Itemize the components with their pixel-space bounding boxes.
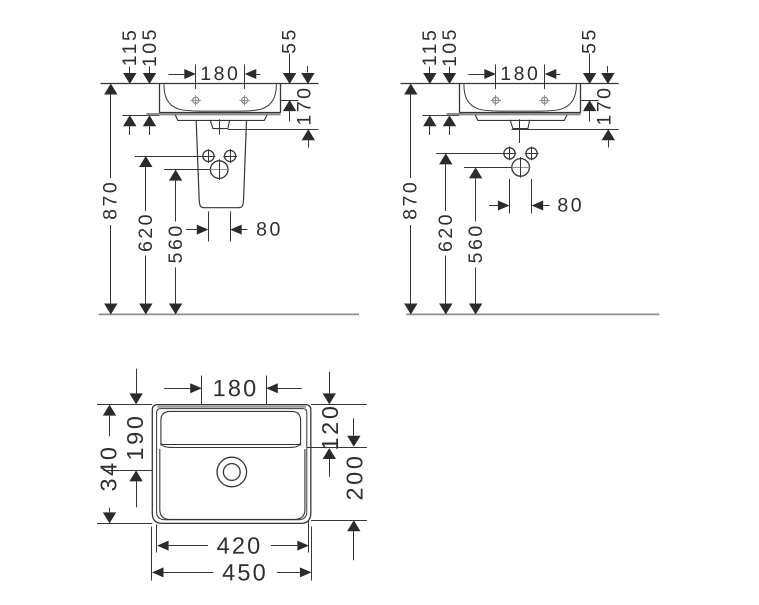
svg-text:620: 620 xyxy=(435,212,457,252)
svg-text:105: 105 xyxy=(439,27,461,67)
svg-text:190: 190 xyxy=(122,413,148,460)
svg-text:560: 560 xyxy=(165,223,187,263)
svg-text:620: 620 xyxy=(135,212,157,252)
svg-text:870: 870 xyxy=(400,180,422,220)
svg-text:55: 55 xyxy=(579,27,601,54)
svg-text:340: 340 xyxy=(96,444,122,491)
svg-text:180: 180 xyxy=(500,63,540,85)
svg-text:560: 560 xyxy=(465,223,487,263)
svg-text:180: 180 xyxy=(213,375,259,401)
svg-text:120: 120 xyxy=(317,403,343,450)
svg-text:55: 55 xyxy=(279,27,301,54)
svg-text:80: 80 xyxy=(256,219,283,241)
svg-text:450: 450 xyxy=(222,559,268,585)
svg-text:170: 170 xyxy=(593,85,615,125)
svg-text:80: 80 xyxy=(557,194,584,216)
svg-text:115: 115 xyxy=(119,28,141,67)
svg-text:870: 870 xyxy=(100,180,122,220)
svg-text:170: 170 xyxy=(293,85,315,125)
svg-text:200: 200 xyxy=(341,453,367,500)
svg-text:105: 105 xyxy=(139,27,161,67)
svg-text:180: 180 xyxy=(200,63,240,85)
svg-text:115: 115 xyxy=(419,28,441,67)
svg-text:420: 420 xyxy=(217,533,263,559)
